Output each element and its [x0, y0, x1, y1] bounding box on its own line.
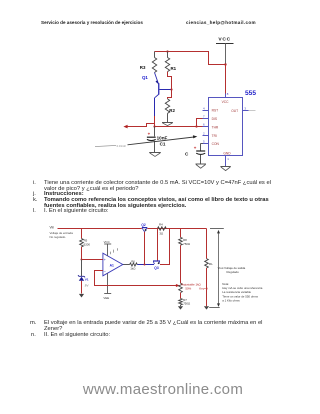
header left: service title: [41, 20, 143, 25]
ground below C1: [149, 153, 161, 157]
svg-text:VCC: VCC: [104, 240, 110, 244]
transistor Q1: [142, 73, 172, 117]
load resistor RL: [205, 229, 213, 307]
resistor R7: [179, 293, 191, 307]
svg-text:R4: R4: [159, 222, 163, 226]
resistor R1: [165, 52, 176, 72]
ground below R7: [178, 306, 183, 309]
VCC power symbol: [216, 37, 234, 44]
wire opamp out to Q3: [123, 264, 154, 266]
resistor R2: [165, 90, 175, 123]
svg-text:0.01mF: 0.01mF: [117, 144, 127, 148]
resistor R8: [179, 229, 191, 284]
ground below zener: [79, 294, 84, 298]
capacitor C1: [147, 127, 168, 153]
svg-text:Q1: Q1: [142, 75, 148, 80]
svg-text:3Ω: 3Ω: [159, 231, 164, 235]
item k: [33, 197, 38, 203]
svg-text:V1: V1: [85, 277, 89, 281]
ground below RL: [204, 306, 209, 309]
node arrow left end of THR net: [123, 125, 127, 129]
wire THR net: [127, 124, 202, 128]
wire zener node to + input: [81, 259, 103, 261]
op-amp VCC supply: [104, 240, 112, 256]
item l: [33, 208, 36, 214]
svg-text:8: 8: [227, 92, 229, 96]
item m: [30, 320, 36, 326]
svg-text:VCC: VCC: [218, 37, 230, 43]
svg-text:THR: THR: [212, 125, 219, 129]
svg-text:GND: GND: [223, 152, 231, 156]
wire DIS jog: [195, 119, 202, 128]
svg-text:Q3: Q3: [154, 266, 159, 270]
Vout dimension arrow: [217, 230, 220, 307]
svg-text:Regulado: Regulado: [227, 270, 240, 274]
Vout text block: [218, 266, 263, 303]
svg-text:Q2: Q2: [141, 223, 145, 227]
wire inverting feedback: [95, 271, 180, 288]
header right: email: [186, 20, 256, 25]
transistor Q2: [141, 223, 147, 232]
svg-text:DIS: DIS: [212, 117, 218, 121]
resistor R3: [140, 52, 157, 73]
svg-text:1: 1: [227, 157, 229, 161]
svg-text:R1: R1: [171, 66, 177, 71]
wire R4 right to Q3 emitter: [160, 229, 170, 265]
Vin labels: [50, 226, 74, 240]
svg-text:No regulado.: No regulado.: [50, 235, 67, 239]
resistor R5: [80, 229, 91, 260]
wire VCC to 555 pin 8: [225, 44, 227, 98]
svg-text:C1: C1: [160, 141, 166, 146]
svg-text:VEE: VEE: [103, 296, 109, 300]
svg-text:RL: RL: [209, 262, 213, 266]
ground below R2: [162, 123, 173, 126]
svg-text:R3: R3: [140, 65, 146, 70]
svg-text:a 1 Kilo ohms: a 1 Kilo ohms: [222, 299, 240, 303]
op 555 U1 box: [209, 90, 257, 156]
item i line 1: [33, 180, 36, 186]
svg-text:50%: 50%: [185, 287, 191, 291]
svg-text:R2: R2: [169, 108, 175, 113]
op-amp VEE supply: [103, 273, 111, 300]
svg-text:C: C: [185, 151, 189, 156]
svg-text:Vin: Vin: [50, 226, 55, 230]
wire Q2 base down: [144, 232, 146, 265]
transistor Q3: [153, 261, 160, 270]
svg-text:OUT: OUT: [231, 109, 238, 113]
item n: [31, 332, 36, 338]
svg-text:Rajustable 1kΩ: Rajustable 1kΩ: [181, 282, 202, 286]
svg-text:R6: R6: [131, 260, 135, 264]
svg-text:1kΩ: 1kΩ: [130, 267, 136, 271]
svg-text:6200: 6200: [84, 243, 91, 247]
svg-text:+: +: [104, 257, 107, 262]
resistor R6: [130, 260, 138, 271]
output terminal ticks: [209, 229, 224, 308]
svg-text:750Ω: 750Ω: [183, 302, 191, 306]
wire top rail Vin: [58, 228, 207, 230]
potentiometer Rajustable: [179, 282, 208, 292]
svg-text:A1: A1: [110, 263, 114, 267]
wire R4 left to Q3 collector: [157, 229, 159, 262]
svg-text:+: +: [148, 132, 151, 137]
wire emitter Q1 down: [154, 116, 156, 127]
ground below 555 GND pin: [220, 167, 230, 171]
wire top rail R3/R1 to VCC: [155, 50, 227, 65]
svg-text:TRI: TRI: [212, 134, 217, 138]
ground below C: [196, 164, 207, 168]
op-amp A1: [103, 248, 123, 276]
svg-text:5V: 5V: [85, 283, 90, 287]
svg-text:CON: CON: [212, 142, 220, 146]
555 pin stubs + numbers: [203, 92, 256, 166]
svg-text:+: +: [194, 145, 197, 150]
item j: [33, 191, 36, 197]
annotation arrow to TRI pin: [95, 135, 197, 148]
zener diode V1: [78, 260, 89, 294]
footer watermark: [3, 381, 320, 398]
resistor R4: [158, 222, 167, 235]
svg-text:−: −: [104, 269, 107, 274]
svg-text:RST: RST: [212, 109, 219, 113]
svg-text:750Ω: 750Ω: [183, 242, 191, 246]
capacitor C on CON pin: [185, 144, 205, 164]
wire R1 bottom to junction: [168, 72, 173, 91]
svg-text:VCC: VCC: [222, 100, 230, 104]
svg-text:555: 555: [245, 90, 256, 97]
